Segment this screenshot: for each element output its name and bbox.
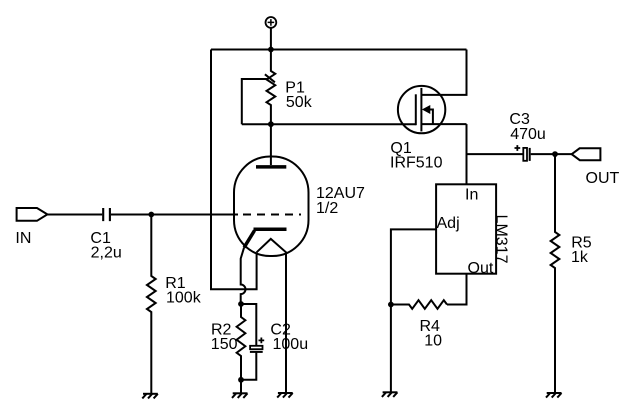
wire IN to C1 <box>47 214 102 216</box>
capacitor C2 <box>241 304 264 380</box>
ground Adj <box>382 392 398 397</box>
triode plate <box>256 165 286 169</box>
wire C1 to grid <box>111 214 238 216</box>
ground R5 <box>546 393 562 398</box>
cathode bent lead <box>244 231 254 248</box>
svg-text:Adj: Adj <box>437 215 460 232</box>
triode grid (dashed) <box>243 214 301 216</box>
svg-text:In: In <box>465 187 478 204</box>
svg-text:100u: 100u <box>273 336 309 353</box>
svg-text:50k: 50k <box>286 94 313 111</box>
svg-text:150: 150 <box>211 336 238 353</box>
ground R2 <box>232 393 248 398</box>
junction dot output node <box>552 151 558 157</box>
junction dot Adj/R4 <box>388 302 394 308</box>
svg-text:OUT: OUT <box>586 170 620 187</box>
resistor R1 <box>147 215 156 394</box>
wire top supply rail <box>211 49 467 51</box>
capacitor C1 <box>103 208 110 221</box>
svg-text:10: 10 <box>424 333 442 350</box>
wire plate lead <box>270 124 272 165</box>
wire Out pin down <box>447 274 467 305</box>
svg-text:2,2u: 2,2u <box>91 245 122 262</box>
junction dot input node <box>148 212 154 218</box>
junction dot supply rail <box>268 47 274 53</box>
wire to ground <box>240 380 242 394</box>
triode heater <box>257 239 286 393</box>
triode U1 12AU7 envelope <box>234 157 309 257</box>
ground R1 <box>142 394 158 399</box>
svg-text:100k: 100k <box>166 290 202 307</box>
MOSFET Q1 IRF510 <box>398 50 467 134</box>
capacitor C3 <box>515 145 530 161</box>
wire cathode with hop over heater wire <box>241 247 246 304</box>
junction dot cathode node <box>238 301 244 307</box>
wire Adj net <box>391 229 436 392</box>
wire source branch to C3 <box>467 153 524 155</box>
junction dot P1 bottom <box>268 121 274 127</box>
regulator U2 LM317 <box>436 184 496 273</box>
resistor R2 <box>237 304 246 380</box>
svg-text:IRF510: IRF510 <box>390 155 443 172</box>
wire left wall down to heater left leg <box>211 50 257 290</box>
svg-text:470u: 470u <box>510 126 546 143</box>
triode cathode <box>254 228 287 232</box>
resistor R5 <box>551 154 560 393</box>
potentiometer P1 <box>242 50 275 125</box>
svg-text:1/2: 1/2 <box>316 200 338 217</box>
resistor R4 <box>391 300 447 309</box>
svg-text:IN: IN <box>15 230 31 247</box>
wire gate/plate node <box>242 123 416 125</box>
power supply V+ symbol <box>266 17 277 50</box>
ground heater right leg <box>277 393 293 398</box>
svg-text:Out: Out <box>468 260 494 277</box>
wire C3 to OUT <box>531 153 572 155</box>
svg-text:LM317: LM317 <box>493 215 510 264</box>
connector OUT <box>572 148 601 160</box>
connector IN <box>17 208 48 221</box>
wire source to LM317 In <box>466 124 468 184</box>
junction dot R2 bottom <box>238 377 244 383</box>
svg-text:1k: 1k <box>571 249 589 266</box>
